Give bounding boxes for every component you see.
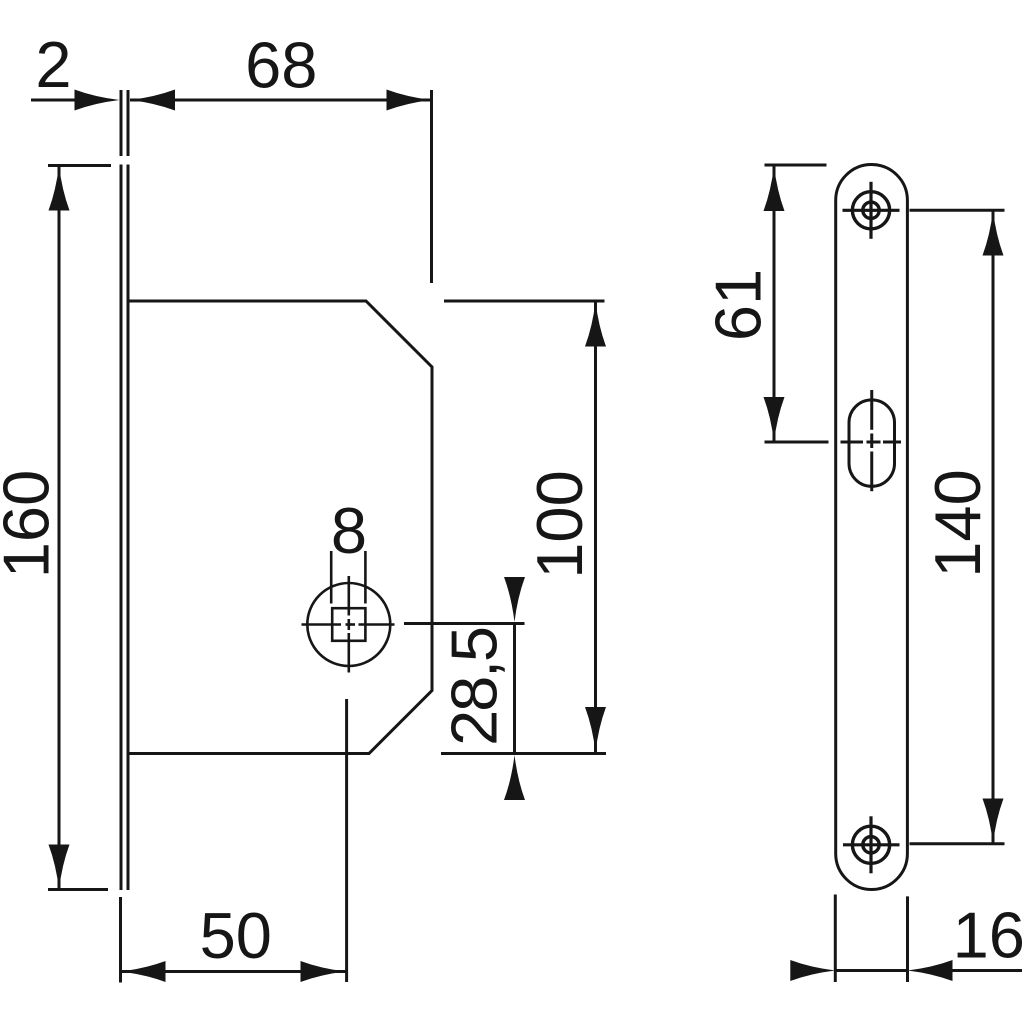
svg-text:61: 61 (701, 269, 774, 341)
svg-text:50: 50 (200, 899, 272, 972)
svg-text:140: 140 (921, 469, 994, 577)
svg-text:68: 68 (245, 29, 317, 102)
svg-text:160: 160 (0, 470, 63, 578)
svg-text:100: 100 (523, 470, 596, 578)
svg-text:2: 2 (35, 28, 71, 101)
svg-text:16: 16 (953, 899, 1024, 972)
svg-text:8: 8 (331, 494, 367, 567)
svg-text:28,5: 28,5 (438, 628, 511, 746)
